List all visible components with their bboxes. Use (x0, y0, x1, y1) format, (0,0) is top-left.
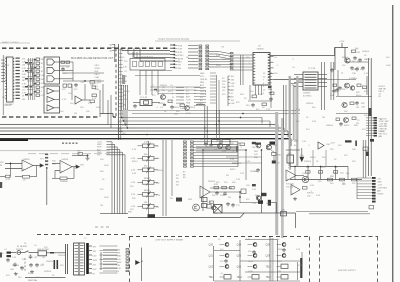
svg-text:+24V REG: +24V REG (377, 187, 387, 189)
svg-text:2: 2 (172, 88, 174, 90)
svg-text:47K: 47K (236, 102, 240, 104)
J6 labels (377, 179, 387, 196)
grid stub (248, 255, 253, 257)
IC U7 (253, 53, 270, 86)
wire W79 (72, 166, 77, 168)
wire W102 (271, 202, 277, 204)
cell U5-1 (133, 62, 137, 67)
transistor Q21 (282, 243, 286, 247)
svg-text:22K: 22K (274, 73, 278, 75)
ferrite bead L2 (255, 143, 261, 145)
fuse arrow 4A (136, 261, 140, 265)
wire W73 (52, 163, 60, 165)
grid stub (248, 276, 253, 278)
attenuator stack A1 (45, 154, 48, 156)
svg-text:.01: .01 (34, 245, 38, 247)
svg-text:1M: 1M (42, 257, 45, 259)
U7 right stubs (270, 56, 274, 58)
resistor R1 (61, 61, 65, 63)
bus column center-left W49 (122, 85, 128, 110)
resistor R12 (363, 86, 367, 89)
svg-text:B IN: B IN (178, 52, 182, 54)
inverter U4b (47, 96, 54, 102)
svg-text:.01: .01 (292, 67, 296, 69)
svg-text:Q24: Q24 (237, 244, 242, 247)
wire W67 (0, 176, 6, 178)
svg-text:Y OUT: Y OUT (95, 80, 102, 82)
wire W71 (33, 165, 42, 167)
heavy lead-in bar (0, 139, 28, 141)
svg-text:4A: 4A (141, 260, 144, 263)
svg-text:7812: 7812 (237, 276, 243, 279)
svg-text:T1: T1 (84, 238, 87, 240)
rail B bottom (128, 217, 240, 219)
svg-text:1K: 1K (41, 71, 44, 73)
svg-text:VID 2: VID 2 (95, 74, 101, 76)
svg-text:R22: R22 (98, 82, 103, 84)
svg-text:24V: 24V (93, 265, 97, 267)
wire W7 (1, 75, 5, 77)
psu drop wires W123 (313, 150, 326, 167)
wire W56 (216, 75, 218, 135)
labels beside U2 (41, 59, 46, 97)
svg-text:100K: 100K (248, 261, 253, 263)
svg-text:TP1: TP1 (40, 159, 45, 161)
svg-text:OSC A: OSC A (200, 90, 207, 93)
junction (10, 163, 11, 164)
svg-text:15: 15 (263, 90, 266, 92)
svg-text:D8: D8 (170, 198, 173, 200)
svg-text:1M: 1M (100, 205, 103, 207)
nand gate U3b (47, 67, 55, 73)
wire W35 (341, 43, 343, 48)
J1 wires out (209, 50, 218, 52)
op-amp U17 (200, 186, 210, 198)
grid stub (277, 276, 282, 278)
cell U5-4 (152, 62, 156, 67)
dashed partial top (37, 234, 128, 236)
svg-text:R63: R63 (254, 151, 259, 153)
input feed line left edge (2, 55, 4, 115)
svg-text:7812: 7812 (266, 266, 272, 269)
bus line BL8 (0, 134, 292, 136)
svg-text:2.2K: 2.2K (246, 161, 251, 163)
delay line DL1 (212, 140, 221, 145)
delay line DL2 (222, 140, 230, 145)
component row RA (25, 62, 28, 64)
stub column ticks (170, 44, 174, 46)
svg-text:C80: C80 (10, 269, 15, 271)
svg-text:5.6K: 5.6K (22, 74, 27, 76)
capacitor C15 (170, 105, 174, 109)
svg-text:100: 100 (156, 158, 160, 160)
svg-text:2.2K: 2.2K (207, 202, 212, 204)
svg-text:100K: 100K (4, 57, 9, 59)
left block small parts (34, 59, 37, 60)
bus splice (368, 108, 371, 116)
svg-text:2N3904: 2N3904 (352, 69, 360, 71)
svg-text:R-Y: R-Y (200, 97, 204, 99)
svg-text:2.2K: 2.2K (131, 182, 136, 184)
svg-text:R-Y: R-Y (186, 91, 190, 93)
grid stub (220, 255, 225, 257)
IC U4 (quad gate) (44, 86, 60, 113)
resistor R22 (6, 175, 11, 181)
choke L6 (148, 214, 156, 217)
wire W46 (336, 96, 372, 98)
svg-text:ABL: ABL (377, 189, 382, 192)
wire W118 (240, 260, 302, 262)
svg-text:R52: R52 (356, 92, 361, 94)
grid labels extra TXT10 (218, 239, 303, 275)
svg-text:E2: E2 (379, 96, 381, 98)
osc labels (162, 87, 166, 92)
notes U15 (307, 193, 314, 198)
svg-text:220: 220 (22, 259, 26, 261)
transistor Q6 (161, 95, 166, 100)
capacitor C19 (209, 143, 213, 147)
svg-text:100K: 100K (216, 65, 221, 67)
svg-text:1M: 1M (186, 57, 189, 59)
crystal X1 (140, 100, 152, 106)
wire W117 (214, 250, 240, 252)
right margin tiny TXT22 (386, 57, 391, 67)
stubs col2 (175, 45, 178, 47)
svg-text:VID: VID (0, 162, 4, 164)
wire W1 (60, 65, 70, 67)
regulator block Q03 (224, 275, 231, 279)
bus ticks (119, 49, 123, 51)
svg-text:22K: 22K (352, 183, 356, 185)
svg-text:100K: 100K (104, 197, 109, 199)
svg-text:1K: 1K (262, 107, 265, 109)
svg-text:2N3904: 2N3904 (58, 255, 66, 257)
svg-text:2N3904: 2N3904 (4, 105, 12, 107)
transistor Q10 (256, 143, 261, 148)
regulator block Q22 (281, 264, 288, 268)
transistor Q12 (256, 196, 261, 201)
wire W90 (289, 163, 291, 170)
stubs U7 pin names (210, 72, 216, 74)
wire W18 (72, 62, 74, 81)
cell U5-3 (145, 62, 149, 67)
op-amp U14 (286, 170, 296, 181)
fuse F1 (17, 251, 21, 255)
U7 bottom drops W32 (256, 85, 262, 95)
resistor R31 (306, 171, 310, 174)
svg-text:33K: 33K (364, 91, 368, 93)
svg-text:C21: C21 (174, 114, 179, 116)
svg-text:9: 9 (172, 94, 174, 96)
pin header J2 (230, 53, 233, 71)
capacitor C67 (366, 152, 369, 157)
bus line BL7 (0, 130, 288, 132)
svg-text:Q25: Q25 (237, 255, 242, 258)
ground G2 (293, 197, 297, 201)
svg-text:C9: C9 (222, 84, 225, 86)
inductor L5 (345, 140, 352, 142)
svg-text:2N3904: 2N3904 (208, 181, 216, 183)
svg-text:R IN: R IN (178, 46, 183, 48)
signal arrow 2 (76, 165, 80, 168)
bus labels extra TXT14 (124, 61, 130, 111)
svg-text:100: 100 (68, 93, 72, 95)
capacitor C16 (251, 103, 255, 107)
transistor Q2 (345, 83, 350, 88)
transistor Q30 (212, 206, 216, 210)
capacitor C21 (215, 191, 219, 195)
svg-text:4.7K: 4.7K (62, 99, 67, 101)
wire W107 (47, 252, 57, 254)
svg-text:4.7K: 4.7K (364, 73, 369, 75)
capacitor C22 (223, 192, 227, 196)
connector J1 row A (199, 45, 202, 70)
svg-text:1K: 1K (24, 243, 27, 245)
psu extra labels TXT19 (300, 155, 356, 163)
psu area labels TXT5 (294, 141, 356, 197)
svg-text:220: 220 (100, 189, 104, 191)
junction (87, 155, 89, 157)
bus line BL4 (123, 120, 270, 122)
svg-text:R9: R9 (162, 90, 165, 92)
svg-text:ACC: ACC (200, 84, 205, 87)
wire W47 (337, 70, 339, 96)
svg-text:-: - (292, 186, 293, 189)
resistor R34 (328, 178, 333, 181)
wire W106 (29, 252, 39, 254)
resistor R15 (352, 117, 356, 120)
svg-text:2N3904: 2N3904 (2, 65, 10, 67)
svg-text:47K: 47K (352, 161, 356, 163)
svg-text:+5V: +5V (377, 179, 381, 181)
svg-text:2.2K: 2.2K (240, 173, 245, 175)
J6 stub wires (357, 177, 372, 179)
svg-text:470: 470 (22, 59, 26, 61)
wire W120 (214, 280, 300, 282)
svg-text:2N3904: 2N3904 (16, 249, 24, 251)
transistor Q14 (193, 204, 200, 211)
verticals x283 W62 (284, 85, 287, 130)
svg-text:DISPLAY SUPPLY: DISPLAY SUPPLY (338, 269, 357, 272)
svg-text:IN914: IN914 (344, 125, 350, 127)
line lower right 2 (309, 213, 370, 215)
grey streak 5 (296, 76, 298, 166)
transistor Q16 (225, 254, 229, 258)
svg-text:-: - (287, 171, 288, 174)
wire W89 (286, 149, 300, 151)
svg-text:Y1 3.58: Y1 3.58 (308, 68, 316, 70)
osc row wires (150, 89, 196, 91)
resistor R32 (319, 171, 323, 174)
svg-text:5.6K: 5.6K (231, 103, 236, 105)
diag join (240, 213, 244, 217)
svg-text:+12V: +12V (377, 184, 382, 186)
transistor Q15 (225, 243, 229, 247)
svg-text:220: 220 (318, 181, 322, 183)
pin labels right block (95, 65, 102, 91)
svg-text:.01: .01 (22, 90, 26, 92)
resistor R7 (92, 94, 97, 100)
svg-text:R70: R70 (214, 184, 219, 186)
svg-text:2N3904: 2N3904 (46, 261, 54, 263)
resistor R13 (333, 84, 337, 87)
wire W109 (58, 252, 66, 254)
svg-text:IN914: IN914 (62, 73, 68, 75)
svg-text:10K: 10K (100, 159, 104, 161)
svg-text:1K: 1K (22, 96, 25, 98)
grid stub (277, 266, 282, 268)
wire W39 (345, 61, 368, 63)
transistor Q8 (218, 144, 223, 149)
svg-text:9: 9 (263, 93, 265, 95)
svg-text:KILL: KILL (200, 88, 205, 90)
resistor R3 (63, 84, 67, 87)
ac extra labels TXT18 (4, 249, 55, 279)
wire W12 (55, 69, 60, 71)
resistor R71 (241, 189, 246, 194)
svg-text:100: 100 (355, 48, 359, 50)
resistor R5 (90, 81, 95, 87)
thermal fuse (50, 252, 54, 254)
diode D3 (252, 142, 256, 144)
bead FB2 (163, 104, 166, 105)
svg-text:LOW VOLT SUPPLY STAGE: LOW VOLT SUPPLY STAGE (155, 238, 184, 241)
wire W2 (1, 59, 5, 61)
wire W6 (1, 71, 5, 73)
svg-text:1M: 1M (342, 183, 345, 185)
svg-text:Q22: Q22 (209, 266, 214, 269)
resistor R26 (240, 143, 245, 146)
svg-text:22K: 22K (130, 186, 134, 188)
resistor R37 (303, 187, 308, 190)
svg-text:C12: C12 (81, 82, 86, 84)
tick marks under bar (62, 143, 64, 144)
wire W31 (270, 55, 335, 57)
svg-text:6.3V: 6.3V (117, 268, 122, 270)
transistor Q22 (282, 254, 286, 258)
svg-text:5.6K: 5.6K (132, 173, 137, 175)
svg-text:1M: 1M (226, 175, 229, 177)
svg-text:220: 220 (224, 182, 228, 184)
trimmer VR6 (138, 202, 159, 209)
diode D4 (272, 161, 276, 164)
center drop pair W54 (205, 106, 207, 145)
svg-text:R66: R66 (254, 157, 259, 159)
center drop pair 2 W55 (217, 110, 220, 140)
svg-text:470: 470 (296, 121, 300, 123)
wire W114 (269, 237, 271, 281)
svg-text:22K: 22K (330, 149, 334, 151)
left block labels TXT8 (60, 61, 101, 115)
svg-text:H DRV: H DRV (377, 193, 384, 195)
svg-text:560: 560 (330, 183, 334, 185)
pin labels U1 (22, 59, 27, 101)
trimmer labels TXT7 (130, 146, 164, 211)
svg-text:.01: .01 (66, 67, 70, 69)
capacitor C11 (355, 101, 359, 105)
display box right (377, 237, 379, 282)
capacitor C20 (256, 168, 260, 172)
right pair lower W99 (363, 140, 366, 178)
wire W87 (273, 156, 275, 161)
svg-text:2.2K: 2.2K (12, 257, 17, 259)
svg-text:Q3: Q3 (162, 87, 166, 89)
trimmer VR2 (138, 154, 159, 161)
resistor R9 (290, 79, 297, 87)
grey streak 1 (275, 112, 278, 235)
ac input labels TXT9 (12, 243, 66, 275)
svg-text:10K: 10K (246, 185, 250, 187)
vertical label B-48 (122, 75, 125, 84)
capacitor C14 (133, 104, 137, 108)
svg-text:560: 560 (346, 173, 350, 175)
svg-text:2.2K: 2.2K (131, 158, 136, 160)
transformer T1 primary leads (65, 244, 67, 274)
gate bus right W44 (322, 62, 325, 110)
resistor R29 (222, 186, 227, 189)
svg-text:.1: .1 (308, 145, 311, 147)
resistor R2 (66, 61, 70, 63)
svg-text:1M: 1M (231, 96, 234, 98)
svg-text:C62: C62 (340, 173, 345, 175)
svg-text:B-Y: B-Y (200, 100, 204, 102)
svg-text:2N3904: 2N3904 (306, 103, 314, 105)
svg-text:1M: 1M (322, 117, 325, 119)
svg-text:Q21: Q21 (209, 255, 214, 258)
svg-text:C8: C8 (222, 90, 225, 92)
svg-text:VID: VID (97, 155, 101, 157)
J7 wires left (103, 248, 117, 250)
svg-text:560: 560 (22, 99, 26, 101)
right mid labels TXT3 (296, 103, 334, 131)
resistor R27 (272, 153, 277, 156)
wire W75 (54, 171, 56, 179)
capacitor C23 (226, 202, 230, 206)
svg-text:L4: L4 (341, 73, 344, 75)
svg-text:12: 12 (263, 73, 266, 75)
IC U3 (quad gate) (44, 57, 60, 84)
heavy rule mid-left (0, 150, 110, 152)
svg-text:2N3904: 2N3904 (362, 51, 370, 53)
svg-text:R50: R50 (354, 125, 359, 127)
svg-text:10K: 10K (252, 147, 256, 149)
svg-text:2N3904: 2N3904 (60, 181, 68, 183)
svg-text:BRT: BRT (186, 97, 191, 99)
svg-text:R80: R80 (330, 176, 335, 178)
svg-text:741: 741 (288, 168, 292, 170)
fan labels TXT17 (200, 139, 236, 141)
svg-text:C36: C36 (352, 73, 357, 75)
svg-text:100: 100 (276, 239, 280, 241)
svg-text:MC1458A IN-LINE DETECTOR CK: MC1458A IN-LINE DETECTOR CKT (71, 56, 114, 60)
svg-text:7: 7 (263, 80, 265, 82)
fuse F3 (369, 206, 374, 209)
wire W86 (271, 150, 275, 153)
svg-text:.1: .1 (41, 67, 44, 69)
svg-text:10K: 10K (180, 97, 184, 99)
svg-text:.1: .1 (240, 147, 243, 149)
svg-text:33K: 33K (232, 182, 236, 184)
transistor Q7 (185, 106, 190, 111)
fan drop W83 (237, 142, 239, 167)
wire W3 (1, 62, 5, 64)
resistor R36 (352, 178, 357, 181)
svg-text:22K: 22K (344, 111, 348, 113)
junction (84, 80, 85, 81)
capacitor C7 (361, 66, 365, 70)
J3 notes (183, 172, 186, 180)
right edge labels extra TXT15 (380, 119, 387, 133)
